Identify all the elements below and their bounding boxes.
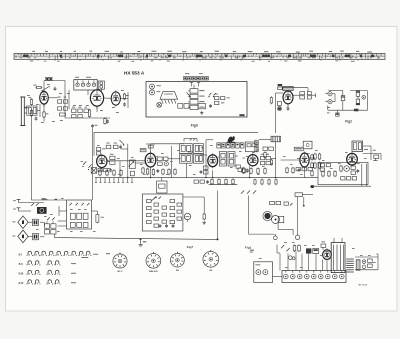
- anode resistors: [314, 153, 321, 169]
- resistor R20: [341, 96, 345, 101]
- wire: [19, 203, 45, 211]
- ground: [139, 238, 147, 246]
- wire: [76, 80, 101, 95]
- switch contact marks: [190, 139, 195, 141]
- negative feedback chain: [311, 154, 314, 188]
- AF section parts: [286, 167, 301, 174]
- coupling caps: [96, 148, 105, 155]
- wire: [92, 128, 94, 199]
- wire: [24, 104, 44, 107]
- mains plug contacts: [289, 256, 296, 260]
- tube V5 (FM demod triode): [97, 154, 107, 169]
- power transformer: [331, 243, 345, 273]
- decoupling resistors row 2: [162, 168, 176, 175]
- terminal strip: [184, 77, 209, 80]
- wire: [55, 234, 219, 240]
- svg-text:EB4 678: EB4 678: [149, 270, 158, 273]
- IF can T3: [220, 152, 227, 167]
- IF transformer T2 secondary: [194, 154, 204, 163]
- tube V8 (detector diode): [248, 153, 258, 167]
- IF transformer T1 primary: [180, 144, 193, 154]
- wire: [65, 90, 93, 118]
- fuse box: [254, 262, 273, 283]
- mains voltage text: [250, 250, 254, 253]
- strip note: [185, 72, 203, 75]
- scale lamp jack: [273, 234, 277, 240]
- dial lamp La1: [325, 92, 332, 96]
- tube V10 (EL84 output): [347, 152, 358, 167]
- Fig3 enclosure: [146, 82, 247, 118]
- value labels main band: [97, 145, 367, 175]
- value labels tone block: [36, 198, 96, 232]
- type label: [140, 148, 146, 151]
- line filter: [306, 248, 319, 253]
- cathode bypass: [344, 166, 356, 175]
- rectifier cell: [356, 91, 360, 97]
- wire: [44, 81, 65, 92]
- AF takeoff parts: [194, 180, 209, 184]
- wire: [97, 98, 111, 109]
- screen resistor: [142, 167, 149, 175]
- wire: [95, 178, 133, 183]
- tone network: [322, 169, 359, 180]
- AGC network: [260, 154, 272, 166]
- AM IF tie strip: [217, 143, 244, 148]
- series resistor: [354, 109, 358, 112]
- switch wafer row B II: [19, 261, 76, 266]
- meter jack: [362, 96, 366, 100]
- wire: [146, 144, 155, 152]
- tube V1 (UHF triode): [40, 90, 49, 106]
- loudspeaker LS2: [12, 230, 28, 243]
- valve socket (ECH81): [146, 252, 161, 273]
- motor switch: [263, 211, 284, 223]
- mains switch: [281, 245, 290, 251]
- resistor R1: [34, 85, 43, 89]
- pickup cartridge: [160, 92, 178, 104]
- wire: [184, 139, 271, 178]
- Fig7 preamp enclosure: [142, 194, 183, 231]
- input jack J1: [150, 84, 161, 89]
- pushbutton switch unit: [67, 200, 92, 229]
- anode resistor R7: [123, 93, 128, 100]
- block labels: [42, 198, 58, 200]
- wire: [31, 200, 97, 237]
- wire: [186, 163, 188, 177]
- neon stabiliser: [184, 213, 190, 222]
- parts below HT bus: [254, 179, 277, 186]
- coupling box: [157, 178, 167, 193]
- ferrite rod antenna: [20, 97, 25, 126]
- mains terminal strip: [282, 271, 346, 283]
- wire: [278, 223, 293, 235]
- wire: [120, 92, 128, 108]
- oscillator trimmer box: [98, 81, 104, 89]
- wire: [43, 104, 45, 121]
- detector load: [238, 167, 245, 174]
- capacitor C3: [54, 87, 57, 91]
- valve socket (EABC80): [203, 250, 219, 272]
- feedback parts: [320, 164, 330, 172]
- polarity marks: [327, 107, 330, 113]
- row note: [82, 253, 111, 258]
- capacitor C12: [198, 104, 212, 109]
- switch wafer row B III: [19, 270, 76, 275]
- tuning arrow: [41, 86, 50, 92]
- preamp caps: [159, 224, 175, 228]
- smoothing electrolytic: [356, 260, 360, 270]
- wire: [217, 191, 219, 240]
- wire: [95, 177, 318, 178]
- volume potentiometer: [129, 160, 136, 176]
- svg-text:B III: B III: [19, 272, 24, 275]
- FM det load parts: [98, 168, 112, 172]
- pilot lamp: [295, 235, 299, 239]
- cathode capacitor: [287, 104, 290, 111]
- aerial switch: [31, 203, 39, 206]
- output stage box: [318, 162, 368, 184]
- preamp resistors: [147, 200, 182, 228]
- oscillator coil (hatched): [283, 86, 293, 90]
- grid resistor: [340, 165, 342, 172]
- ratio detector box: [245, 142, 257, 152]
- decoupling resistors row 1: [99, 169, 122, 176]
- aerial symbols: [190, 83, 200, 87]
- transformer laminations: [346, 259, 354, 272]
- svg-text:B II: B II: [19, 263, 23, 266]
- switch contact: [208, 93, 215, 97]
- AVC resistor: [270, 96, 272, 104]
- bias resistors: [215, 94, 230, 105]
- IF transformer T2 primary: [180, 154, 193, 163]
- wire: [323, 238, 342, 250]
- bypass parts: [250, 167, 266, 174]
- resistor R15: [300, 92, 305, 99]
- wire: [328, 91, 342, 102]
- svg-text:B9 C: B9 C: [118, 271, 123, 273]
- wire: [276, 93, 283, 133]
- IF can T4: [228, 152, 235, 167]
- tube V4 (AM converter): [283, 90, 293, 106]
- capacitor C4: [35, 117, 38, 121]
- wire: [121, 144, 128, 178]
- svg-text:Fig7: Fig7: [187, 245, 194, 249]
- aerial terminal: [13, 199, 20, 202]
- value labels: [27, 84, 124, 123]
- wire: [249, 196, 275, 235]
- wire: [283, 88, 308, 92]
- fusible resistors: [293, 244, 300, 252]
- padder capacitor: [278, 107, 282, 111]
- value labels PSU: [259, 242, 376, 268]
- voltage selector parts: [270, 201, 293, 205]
- divider resistor: [203, 213, 206, 224]
- heater choke: [271, 136, 281, 142]
- grid capacitor C10: [91, 124, 97, 128]
- wire: [293, 93, 316, 97]
- osc trimmer: [164, 162, 168, 166]
- decoupling capacitors row: [209, 178, 237, 185]
- wire: [48, 91, 65, 118]
- svg-text:HX 553 A: HX 553 A: [124, 71, 145, 76]
- wire: [94, 132, 258, 156]
- earth terminal: [13, 208, 20, 211]
- detector filter: [236, 165, 249, 173]
- switch contacts: [151, 197, 161, 202]
- wire: [93, 106, 111, 118]
- tone capacitors: [44, 224, 56, 234]
- switch wafer row B IV: [19, 280, 76, 285]
- grid cap: [148, 145, 153, 148]
- resistor R11: [184, 104, 189, 109]
- motor M: [157, 102, 162, 107]
- dial scale: [14, 51, 385, 62]
- band switch contacts: [81, 162, 92, 171]
- antenna coil L1: [24, 106, 37, 115]
- svg-text:B IV: B IV: [19, 282, 24, 285]
- wire: [342, 101, 344, 111]
- loudspeaker LS1: [12, 216, 28, 229]
- switch wafer row B I: [19, 251, 99, 256]
- IF filter parts: [106, 140, 124, 149]
- cathode resistor group: [72, 107, 91, 118]
- svg-text:Fig2: Fig2: [345, 120, 352, 124]
- tone switch: [47, 217, 55, 220]
- svg-text:B I: B I: [19, 253, 23, 256]
- wire: [183, 197, 204, 214]
- grid resistor network: [58, 97, 68, 116]
- resistor R10: [178, 104, 183, 109]
- wire: [275, 142, 277, 178]
- dial lamp La2: [325, 100, 332, 104]
- resistor R2: [29, 97, 33, 106]
- trimmer pair: [278, 84, 283, 90]
- wire: [241, 191, 256, 194]
- wire: [355, 254, 378, 270]
- valve socket (ECC85): [113, 253, 127, 274]
- part number mark: [239, 114, 244, 116]
- output transformer: [352, 141, 363, 151]
- surge resistor: [321, 241, 326, 247]
- resistor R4: [43, 111, 49, 118]
- tube V6 (ECH81): [145, 152, 156, 169]
- anode load: [158, 157, 168, 166]
- tube V7 (IF amp EF89): [208, 153, 218, 168]
- decoupling capacitor C9: [104, 117, 109, 124]
- wire: [101, 152, 315, 178]
- matching transformer 2: [28, 233, 38, 239]
- valve socket (EF89): [171, 252, 185, 272]
- wire: [30, 116, 32, 201]
- trimmer capacitors C1 C2: [44, 77, 53, 92]
- AM IF coil: [255, 140, 258, 152]
- svg-text:Fig1: Fig1: [245, 246, 252, 250]
- phono jack box: [303, 141, 312, 149]
- matching transformer 1: [28, 219, 38, 225]
- bleeder resistor: [96, 213, 104, 223]
- dial cord drum: [227, 136, 236, 143]
- capacitor C15: [307, 92, 311, 99]
- ground: [200, 111, 203, 114]
- cathode parts: [152, 168, 159, 175]
- screen bypass parts: [200, 166, 208, 174]
- type label: [294, 147, 303, 151]
- aerial coil (iron core): [37, 207, 47, 214]
- wire: [106, 144, 184, 178]
- AM detector parts: [263, 147, 273, 158]
- input jack J2: [150, 90, 161, 95]
- tap selector plate: [295, 193, 313, 235]
- wire: [37, 104, 40, 117]
- speaker feed: [363, 146, 381, 161]
- electrolytic 2: [362, 260, 366, 269]
- crystal detector: [91, 168, 96, 174]
- tube V9 (EABC80): [300, 152, 309, 169]
- grid leak resistor: [277, 102, 281, 106]
- battery tap: [336, 110, 339, 116]
- filter resistor: [368, 259, 373, 267]
- svg-text:B1 01 04: B1 01 04: [359, 284, 368, 287]
- IF transformer T1 secondary: [194, 144, 204, 154]
- wire: [273, 245, 328, 277]
- rectifier cell 2: [356, 99, 360, 105]
- wire: [328, 106, 368, 111]
- tube V2 (ECC85): [90, 88, 103, 107]
- FM tuner coil unit: [74, 77, 97, 90]
- tube V3: [111, 90, 120, 106]
- svg-text:Fig3: Fig3: [191, 124, 198, 128]
- resistor R3: [30, 109, 32, 116]
- cathode network: [296, 167, 312, 170]
- record changer transformer: [187, 85, 205, 110]
- AF coupling network: [110, 154, 115, 165]
- capacitor C8: [123, 103, 126, 107]
- wire: [310, 164, 371, 186]
- wire: [350, 91, 368, 111]
- rectifier tube V11: [323, 248, 332, 261]
